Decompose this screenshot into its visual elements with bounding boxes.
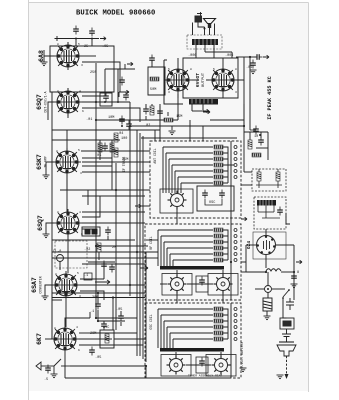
switch [283,290,289,297]
tube V1 6A8 [54,42,82,70]
cap C20 [101,321,107,330]
cap C12 [45,365,51,374]
tuning coil gear IF1 [160,189,193,213]
small cap cluster below right vertical [253,126,259,135]
svg-text:IF TRANS: IF TRANS [122,157,126,172]
cluster between V2 and V3 [46,130,150,205]
resistor R1 [150,77,159,81]
svg-text:.006: .006 [225,54,233,58]
leads IF2 gears [160,270,223,284]
tube V3 6SK7 [53,148,81,176]
left rail [51,140,53,339]
speaker magnet dark block [195,16,203,23]
wire loop around V1 [44,39,120,93]
svg-text:4: 4 [76,326,78,329]
dashed box spark plate upper [252,169,286,191]
winding bar IF2 [160,266,224,270]
svg-text:6K7: 6K7 [36,333,43,345]
small corner box bottom-left of V5 [84,273,92,280]
speaker voice coil [208,24,211,29]
svg-text:5: 5 [78,43,80,46]
cap C15 right [291,273,297,282]
ground IF3 [240,368,247,372]
cap C16 [143,106,149,115]
ground V3 [43,175,50,179]
speaker leads [193,23,215,36]
svg-text:OSC: OSC [209,201,215,205]
svg-text:10: 10 [254,135,258,139]
dashed box IF3 [145,303,241,378]
svg-text:3: 3 [81,64,83,67]
resistor R7 [252,153,261,157]
svg-text:.05: .05 [102,45,108,49]
tuning gears IF2 [162,274,192,296]
dashed box IF2 [145,224,241,300]
svg-text:8: 8 [56,150,58,153]
tube V8 6V6GT [209,66,237,94]
pin number specks around tubes [54,43,237,352]
svg-text:.01: .01 [86,118,92,122]
svg-text:.01: .01 [246,66,252,70]
svg-text:BUICK MODEL 980660: BUICK MODEL 980660 [76,10,155,18]
tube V6 6K7 [51,325,79,353]
tube V5 6SA7 [52,271,80,299]
resistor R11 vertical [150,106,154,115]
svg-text:300: 300 [92,296,98,300]
trimmer box IF1 [197,186,234,211]
wire loop around V2 [48,64,160,130]
junction dots V2 [104,101,106,103]
transformer leads down [196,45,232,58]
svg-text:DET-OSC/1-A: DET-OSC/1-A [44,91,48,112]
resistor R3 vertical [110,143,114,152]
winding bar IF3 [160,348,224,352]
svg-text:ANT COIL: ANT COIL [153,148,157,163]
svg-text:.1: .1 [90,310,94,314]
svg-text:6SQ7: 6SQ7 [37,215,44,231]
trimmer small box IF2 [196,276,208,292]
cluster between V3 and V4 [46,173,145,234]
svg-text:OUTPUT: OUTPUT [202,72,206,87]
caps pair below [119,116,125,125]
svg-text:10M: 10M [108,116,114,120]
cap C8 [105,227,111,236]
svg-text:4: 4 [79,90,81,93]
bus lines IF2 [158,230,213,266]
cluster under output coil (143-182, 103-135) [143,104,202,130]
svg-text:.05: .05 [95,356,101,360]
junction dots top [75,38,77,40]
arrow into IF2 left [140,266,148,270]
svg-text:8: 8 [190,68,192,71]
svg-text:5: 5 [78,149,80,152]
arrow long left [95,280,110,284]
svg-text:5: 5 [168,68,170,71]
cap C4 [119,77,125,86]
svg-text:6SK7: 6SK7 [36,154,43,170]
bus resistors IF1 [214,145,223,185]
bus lines IF3 [158,309,213,348]
svg-text:4: 4 [79,211,81,214]
right cluster above vibrator [244,132,268,168]
small circles right bus IF1 [234,146,237,179]
resistor R5 vertical [97,243,101,252]
arrow top [100,37,106,41]
fuse box [280,318,294,329]
svg-text:3: 3 [168,91,170,94]
svg-text:CL-8: CL-8 [53,250,61,254]
bus resistors IF2 [214,228,223,262]
svg-text:IF PEAK 455 KC: IF PEAK 455 KC [267,76,273,120]
cluster V5 [45,262,145,327]
wires under V4 [52,234,145,273]
svg-text:.02: .02 [144,124,150,128]
tube V2 6SQ7 [54,88,82,116]
svg-text:8: 8 [55,273,57,276]
bus resistors IF3 [214,307,223,341]
cap C6 [149,55,155,64]
dashed box vibrator lower [254,197,286,229]
svg-text:.05: .05 [116,308,122,312]
tube V4 6SQ7 [54,209,82,237]
tuning gears IF3 [161,355,191,377]
svg-text:8: 8 [57,43,59,46]
ground antenna [51,374,58,378]
svg-text:.006: .006 [188,54,196,58]
vibrator choke dark bar [257,200,276,206]
leads IF3 gears [176,352,221,365]
svg-text:TUNER ASSEMBLY REAR: TUNER ASSEMBLY REAR [188,375,222,378]
dashed box around osc pad [55,241,87,268]
svg-text:8: 8 [54,327,56,330]
svg-text:3: 3 [80,172,82,175]
svg-text:8: 8 [235,68,237,71]
cap C14 [258,137,264,146]
box component under V4 [82,227,100,236]
svg-text:OSC COIL: OSC COIL [149,314,153,329]
svg-text:8: 8 [297,271,299,275]
output transformer dark bar [192,39,218,45]
svg-text:50M: 50M [150,88,156,92]
svg-text:20M: 20M [90,332,96,336]
cap C11 [89,347,95,356]
arrow right of cluster [203,109,209,113]
svg-text:RF COIL: RF COIL [149,236,153,249]
caps inside trimmer box [202,190,208,199]
svg-text:CONVERTER: CONVERTER [39,276,43,293]
page scan tint [29,3,308,391]
cap C1 [73,26,79,35]
cap C2 [89,28,95,37]
filter coil [266,269,281,271]
ground left of V1 [41,62,48,66]
resistor R12 [164,118,173,122]
verticals to IF boxes from top [141,57,252,303]
resistor R4 vertical pair tall [114,133,118,142]
cap right top with arrow [244,56,256,58]
left edge arrows [135,204,141,208]
lamp leads [255,289,285,298]
cap C7 [102,143,108,152]
wire loop around output pair [164,57,244,104]
trimmer small box IF3 [196,357,208,373]
plus mark antenna [55,36,60,41]
antenna bottom left [36,359,70,374]
svg-text:6: 6 [82,110,84,113]
bus lines IF1 [163,147,213,193]
long vertical bus left-middle [96,63,146,362]
svg-text:25: 25 [84,45,88,49]
cap C9 [101,261,107,270]
svg-text:15M: 15M [176,115,182,119]
svg-text:100: 100 [121,137,127,141]
ammeter / small comp right [283,298,294,318]
cap C18 [95,301,101,310]
tube V7 6V6GT [164,66,192,94]
cap C19 [118,313,124,322]
svg-text:6-VOLT BATTERY: 6-VOLT BATTERY [240,342,244,369]
cap C10 [109,264,115,273]
svg-text:.1: .1 [84,274,88,278]
svg-text:.5: .5 [44,378,48,382]
dashed box IF1 [150,141,241,218]
pilot lamp [265,286,272,293]
svg-text:6: 6 [81,233,83,236]
box right of V6 [100,330,114,348]
hatched coil below output tubes [189,99,218,104]
resistor R9 inside [276,172,280,181]
small circle component [57,255,64,262]
ground under cluster [169,131,176,135]
svg-text:6: 6 [78,349,80,352]
svg-text:3: 3 [235,91,237,94]
cap C5 [123,92,129,101]
svg-text:8: 8 [57,90,59,93]
arrow at V2 osc [127,62,133,66]
resistor R10 vertical hatched [263,298,272,311]
small cluster right of V2: rect with resistor [148,60,165,95]
svg-text:5: 5 [77,272,79,275]
svg-text:6SQ7: 6SQ7 [36,94,43,110]
power lead dashed [286,356,288,374]
cluster V6 bottom [45,312,112,364]
rectifier leads [246,213,294,268]
arrow below coil [204,110,210,114]
cap to ground right [250,60,256,69]
rectifier tube V9 OZ4 [257,236,276,255]
long horizontals crossing middle [65,94,244,378]
arrow mid at y92 [119,90,129,94]
plug body [277,345,296,356]
speaker horn [204,19,216,24]
junction dots scattered [95,56,295,367]
capacitor C13 [254,54,263,60]
resistor R6 vertical [248,140,252,149]
svg-text:8: 8 [57,211,59,214]
svg-text:6SA7: 6SA7 [31,277,38,293]
svg-text:250: 250 [90,71,96,75]
box left mid with cap [100,93,112,106]
svg-text:5: 5 [213,68,215,71]
cap C17 [157,108,163,117]
resistor R2 vertical [98,143,102,152]
resistor R8 inside [257,172,261,181]
